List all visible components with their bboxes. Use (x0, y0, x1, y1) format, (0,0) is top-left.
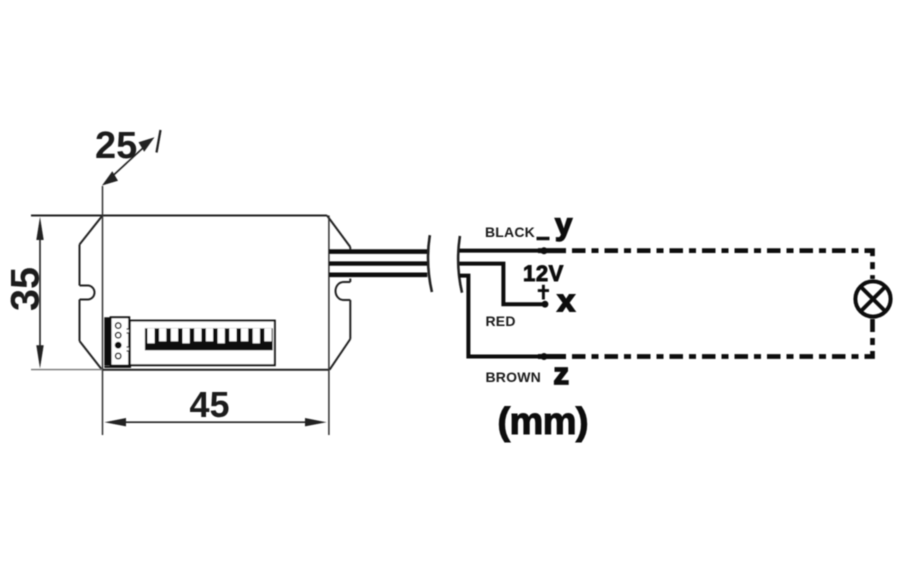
svg-text:(mm): (mm) (498, 401, 589, 443)
dimension 25 tick (157, 130, 161, 153)
svg-text:z: z (554, 356, 570, 391)
terminal node x (542, 301, 549, 308)
svg-text:BLACK: BLACK (485, 224, 535, 240)
svg-text:RED: RED (486, 313, 516, 329)
terminal node y (541, 247, 548, 254)
terminal node z (541, 353, 548, 360)
dimension extension line left (25/45 shared) (102, 186, 104, 435)
module body outline (31, 216, 350, 370)
svg-text:BROWN: BROWN (486, 369, 541, 385)
svg-text:y: y (555, 207, 573, 242)
svg-text:35: 35 (4, 267, 48, 311)
dimension 25 diagonal arrow (102, 137, 155, 185)
svg-text:x: x (558, 283, 576, 318)
wire brown (module to break) (329, 272, 427, 277)
plus sign (538, 285, 549, 300)
wire red x (after break) (460, 264, 546, 305)
dimension 35 line (36, 217, 43, 369)
svg-text:45: 45 (190, 384, 230, 425)
svg-text:25: 25 (95, 125, 137, 167)
lamp L1 (855, 281, 890, 316)
DIP switch bank S1 (130, 321, 275, 366)
dimension extension line right (45) (328, 216, 330, 436)
cable break symbol (428, 235, 432, 292)
wire black y (after break) (460, 249, 545, 253)
minus sign (537, 237, 550, 240)
dimension 35 bottom extension (31, 369, 102, 371)
wire brown z (after break) (460, 276, 545, 357)
wire red (module to break) (329, 261, 427, 265)
dash-dot wire top (y to lamp) (538, 248, 566, 253)
wire black (module to break) (329, 249, 427, 254)
dash-dot wire bottom (z to lamp) (538, 354, 566, 359)
connector block J1 (104, 317, 131, 367)
dimension 45 line (105, 418, 327, 426)
